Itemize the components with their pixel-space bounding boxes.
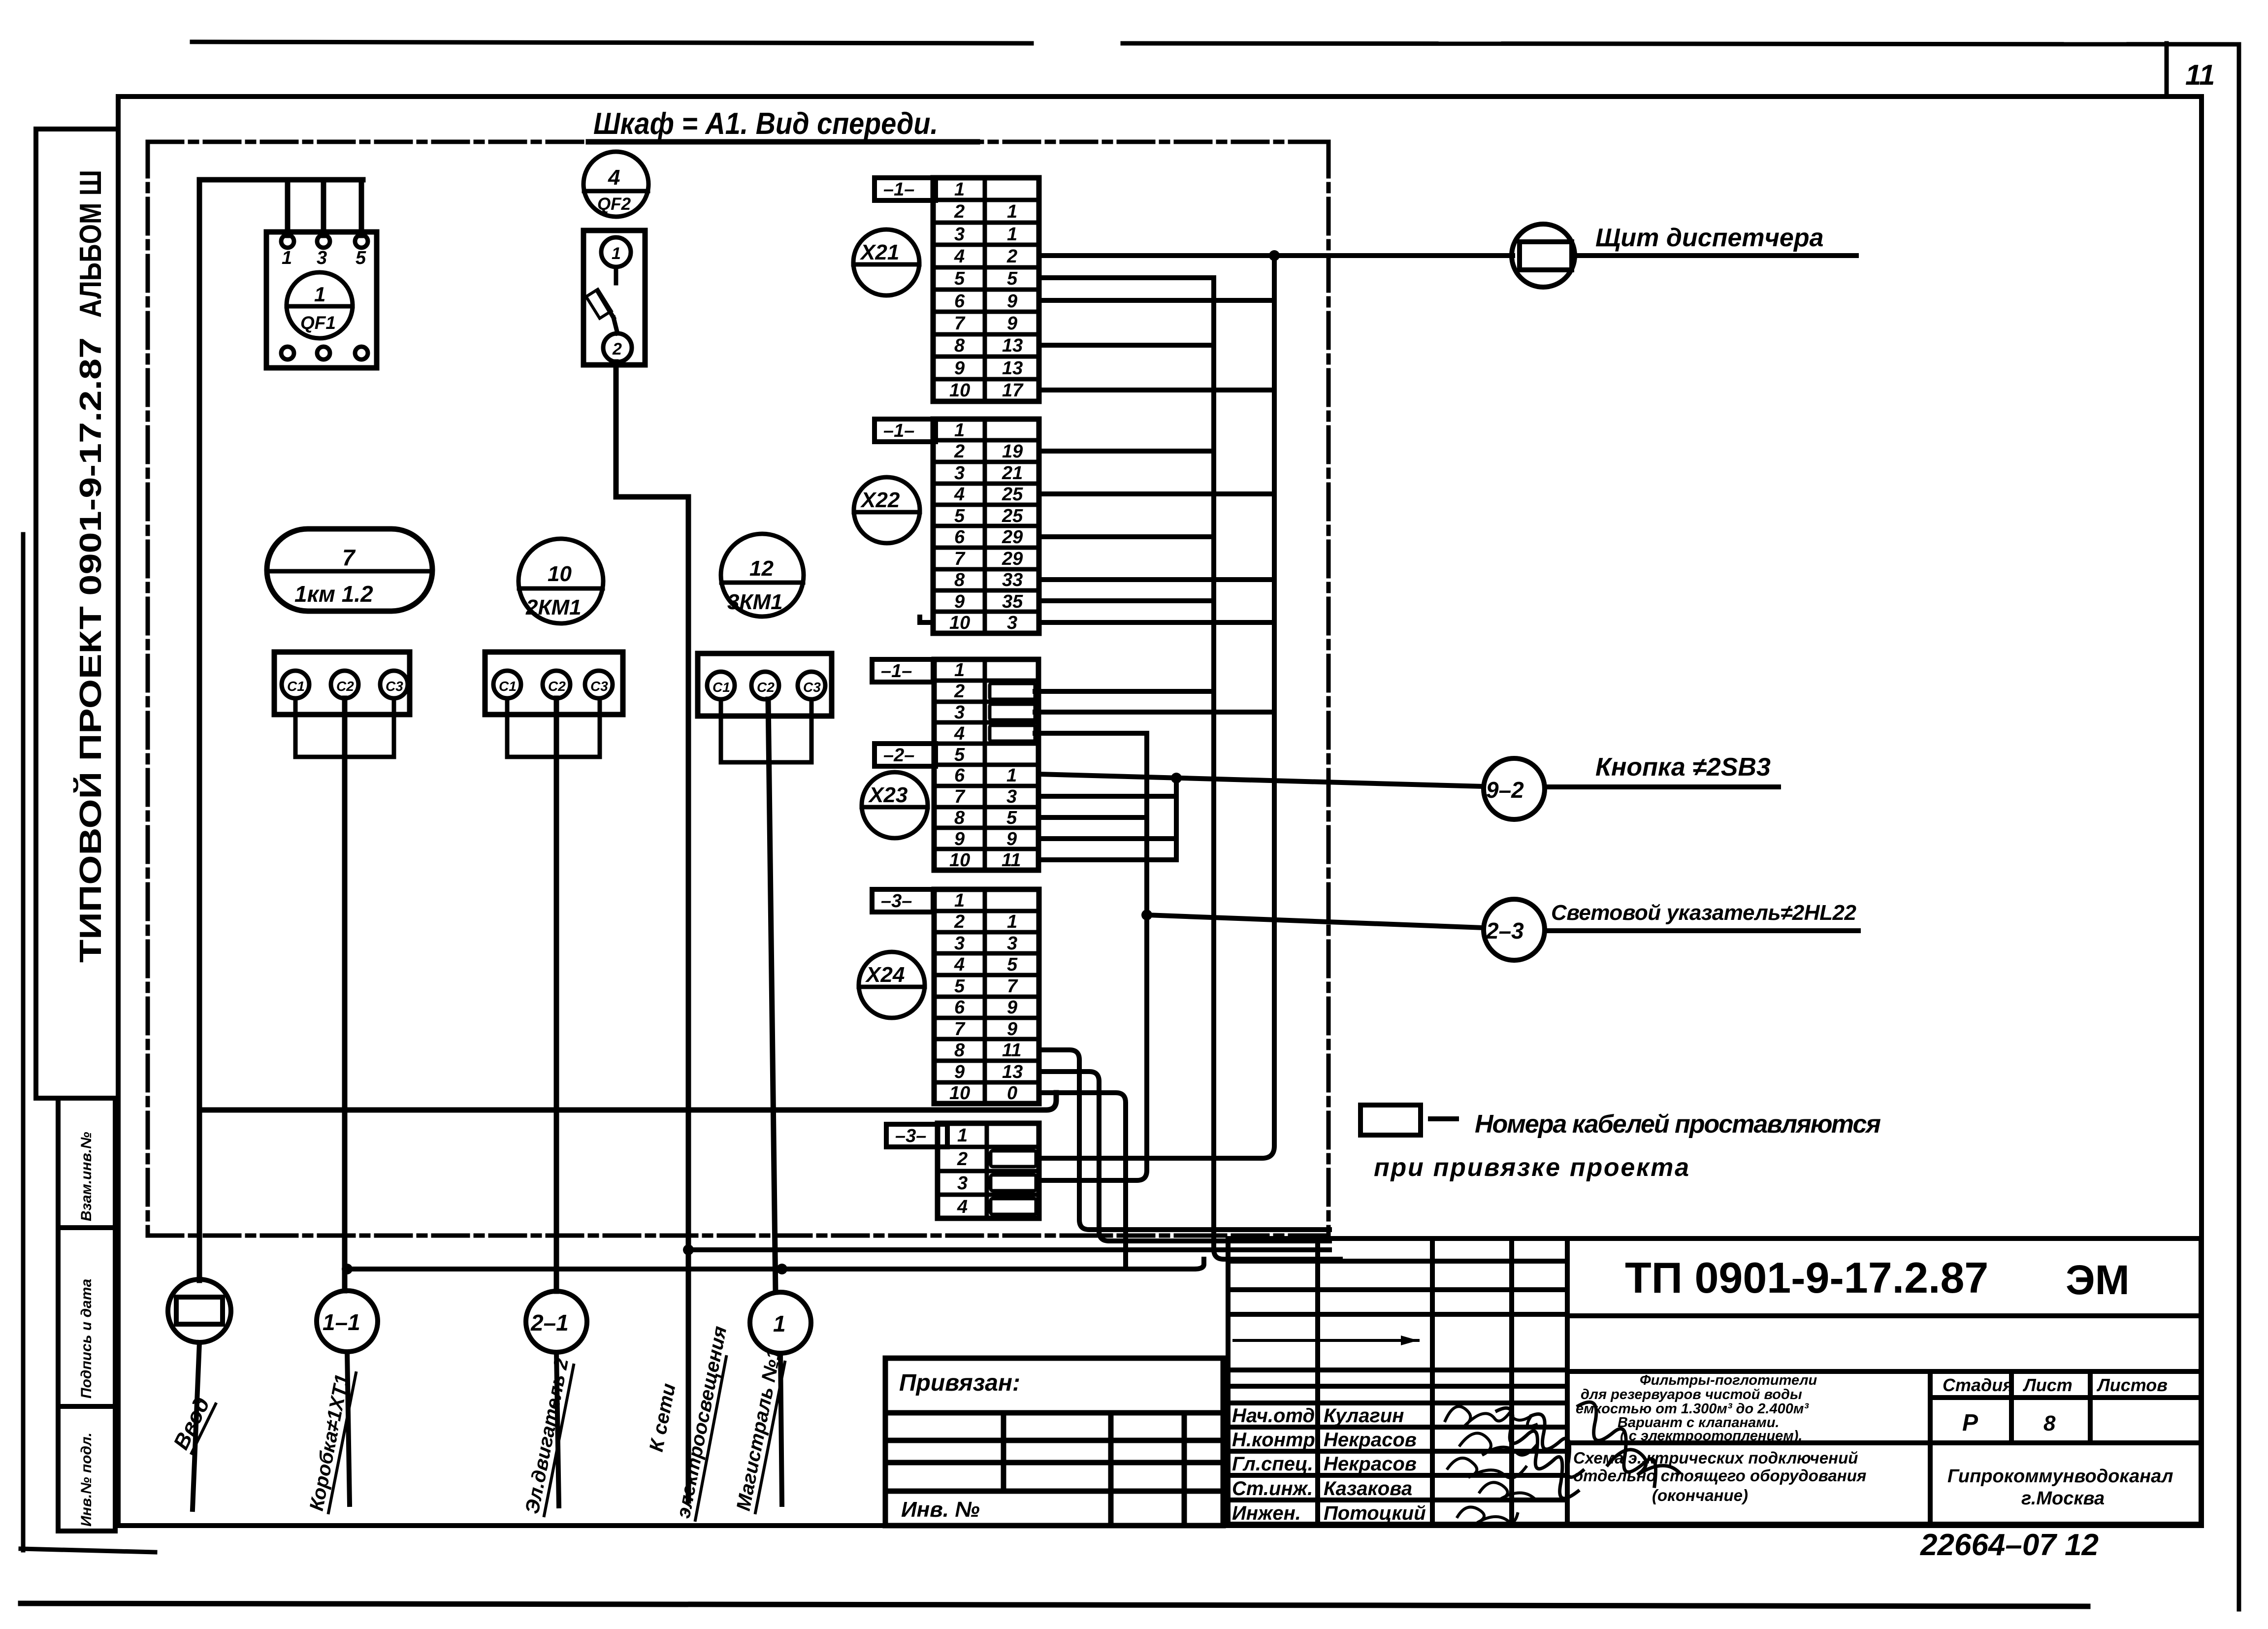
svg-text:9: 9 <box>954 1062 965 1082</box>
wire: QF2 to lighting feeder <box>616 362 688 1501</box>
wire: below 1-1 <box>347 1352 350 1504</box>
svg-text:9: 9 <box>1007 997 1017 1018</box>
svg-text:4: 4 <box>954 246 965 267</box>
svg-text:X23: X23 <box>868 783 907 807</box>
svg-text:г.Москва: г.Москва <box>2021 1488 2105 1509</box>
cable group label –1– <box>875 178 936 200</box>
svg-text:С3: С3 <box>803 680 821 695</box>
wire: X23.7 to button riser <box>1038 794 1176 799</box>
svg-text:9: 9 <box>1007 313 1017 334</box>
svg-text:7: 7 <box>954 786 966 807</box>
svg-text:5: 5 <box>954 506 965 526</box>
X23 cable number boxes <box>990 684 1035 741</box>
svg-text:2–1: 2–1 <box>530 1310 569 1336</box>
svg-text:ТП 0901-9-17.2.87: ТП 0901-9-17.2.87 <box>1625 1253 1988 1302</box>
svg-text:11: 11 <box>2185 59 2215 91</box>
wire: button line right <box>1545 784 1779 789</box>
wire: X21.6 to V2 <box>1039 298 1274 303</box>
wire: X22.8 to V2 <box>1039 577 1274 582</box>
node: junction magistral <box>777 1264 787 1274</box>
svg-text:Лист: Лист <box>2022 1375 2073 1395</box>
wire: feeder to Магистраль 1 <box>768 699 776 1292</box>
svg-text:4: 4 <box>957 1197 968 1217</box>
svg-text:С1: С1 <box>713 680 730 695</box>
wire: bottom distribution line <box>347 1259 1204 1269</box>
svg-text:Стадия: Стадия <box>1943 1375 2013 1395</box>
cabinet =A1 boundary (dash-dot) <box>148 142 1328 1236</box>
circuit breaker QF1 <box>266 232 377 368</box>
svg-text:9: 9 <box>954 358 965 379</box>
left sidebar stamp box <box>36 129 118 1531</box>
svg-text:33: 33 <box>1002 570 1023 590</box>
contactor position 7/1км1.2 (stadium) <box>267 529 432 611</box>
svg-text:Номера кабелей проставляют: Номера кабелей проставляются <box>1475 1110 1881 1139</box>
svg-text:5: 5 <box>1006 808 1017 828</box>
svg-text:3: 3 <box>954 933 965 954</box>
svg-text:10: 10 <box>949 380 970 401</box>
svg-text:Привязан:: Привязан: <box>899 1370 1020 1396</box>
svg-text:Световой указатель≠2HL22: Световой указатель≠2HL22 <box>1551 901 1857 925</box>
contactor position 10/2КМ1 <box>518 539 603 623</box>
wire: X23.4 box to indicator riser <box>1035 731 1147 736</box>
svg-text:25: 25 <box>1002 506 1023 526</box>
svg-text:25: 25 <box>1002 484 1023 505</box>
svg-text:X24: X24 <box>865 963 905 987</box>
wire: X21.10 to V2 <box>1039 388 1274 392</box>
svg-text:11: 11 <box>1002 1040 1021 1061</box>
svg-text:3КМ1: 3КМ1 <box>727 590 783 614</box>
svg-text:Фильтры-поглотители: Фильтры-поглотители <box>1640 1372 1817 1388</box>
svg-text:X22: X22 <box>860 488 900 512</box>
svg-text:ЭМ: ЭМ <box>2066 1257 2130 1303</box>
wire: button riser <box>1174 778 1179 860</box>
svg-text:5: 5 <box>1007 268 1018 289</box>
terminal block X21 table <box>933 178 1039 401</box>
svg-text:9: 9 <box>954 829 965 849</box>
svg-text:Гл.спец.: Гл.спец. <box>1232 1453 1313 1475</box>
svg-text:1км 1.2: 1км 1.2 <box>294 581 373 607</box>
symbol: circle 1 (magistral) <box>750 1292 811 1353</box>
symbol: Щит диспетчера circle <box>1512 224 1575 287</box>
svg-text:8: 8 <box>2043 1411 2056 1435</box>
svg-text:2: 2 <box>1006 246 1017 267</box>
svg-text:ТИПОВОЙ ПРОЕКТ 0901-9-17.2.87: ТИПОВОЙ ПРОЕКТ 0901-9-17.2.87 <box>73 337 108 963</box>
svg-text:2КМ1: 2КМ1 <box>525 595 582 619</box>
wire: X23.3 box to V2 <box>1035 710 1274 715</box>
svg-text:5: 5 <box>1007 954 1018 975</box>
svg-text:7: 7 <box>954 1019 966 1040</box>
svg-text:С3: С3 <box>590 679 608 694</box>
svg-text:1: 1 <box>1007 201 1017 222</box>
svg-text:С1: С1 <box>499 679 517 694</box>
label: Магистраль №1 <box>733 1347 785 1513</box>
svg-text:21: 21 <box>1002 463 1023 484</box>
svg-text:Н.контр.: Н.контр. <box>1232 1429 1321 1451</box>
svg-text:Потоцкий: Потоцкий <box>1324 1502 1426 1524</box>
svg-text:Листов: Листов <box>2096 1375 2168 1395</box>
wire: XS.2 to V2 handled above ; lighting junction line <box>688 1247 1329 1252</box>
svg-text:29: 29 <box>1002 549 1023 569</box>
wire: QF1 phase drops <box>285 180 291 235</box>
svg-text:1: 1 <box>954 179 965 200</box>
svg-text:7: 7 <box>954 313 966 334</box>
wire: vertical input riser (Ввод) <box>197 180 202 1280</box>
label: Коробка+1ХТ1 <box>306 1372 356 1513</box>
svg-text:( с электроотоплением),: ( с электроотоплением), <box>1620 1428 1802 1444</box>
svg-text:9: 9 <box>1007 291 1017 312</box>
wire: feeder to Эл.двигатель 2-1 <box>554 698 559 1291</box>
svg-text:2: 2 <box>954 912 965 932</box>
svg-text:1: 1 <box>954 660 965 681</box>
wire: tbox1 bridge <box>295 698 394 757</box>
svg-text:1: 1 <box>954 420 965 441</box>
svg-text:19: 19 <box>1002 441 1023 462</box>
wire: X23.10 to button riser corner <box>1038 857 1176 862</box>
wire: X24.10 exit <box>1039 1093 1126 1269</box>
wire: feeder to Коробка 1-1 <box>342 698 348 1291</box>
node: junction on dispatcher line <box>1269 250 1280 261</box>
svg-text:29: 29 <box>1002 527 1023 548</box>
svg-text:6: 6 <box>954 291 965 312</box>
symbol: circle 1-1 <box>317 1291 378 1352</box>
svg-text:2: 2 <box>957 1149 968 1170</box>
svg-text:Казакова: Казакова <box>1324 1478 1412 1499</box>
svg-text:Гипрокоммунводоканал: Гипрокоммунводоканал <box>1947 1466 2173 1487</box>
wire: X22.2 to V1 <box>1039 449 1214 454</box>
svg-text:2: 2 <box>612 340 622 358</box>
svg-text:3: 3 <box>954 702 965 723</box>
svg-text:–2–: –2– <box>883 745 914 766</box>
node: junction 1-1 <box>342 1264 353 1274</box>
svg-text:АЛЬБОМ Ш: АЛЬБОМ Ш <box>74 170 108 318</box>
svg-text:10: 10 <box>949 613 970 633</box>
svg-text:Взам.инв.№: Взам.инв.№ <box>78 1132 95 1221</box>
svg-text:1: 1 <box>282 248 292 268</box>
svg-text:1–1: 1–1 <box>323 1309 360 1335</box>
contactor position 12/3КМ1 <box>721 534 804 617</box>
terminal block XS table <box>938 1123 1039 1218</box>
svg-text:11: 11 <box>1002 850 1021 871</box>
node: junction on indicator line <box>1141 910 1152 920</box>
svg-text:1: 1 <box>1006 765 1017 786</box>
wire: dispatcher line right <box>1574 253 1856 258</box>
label: К сети электроосвещения <box>646 1324 731 1520</box>
cable group label –1– <box>875 419 936 442</box>
wire: main bus to X24.10 <box>199 1093 1056 1110</box>
title block <box>1228 1238 2201 1524</box>
legend cable-number box <box>1361 1105 1457 1135</box>
svg-text:2: 2 <box>954 201 965 222</box>
symbol: Ввод circle <box>168 1279 231 1342</box>
svg-text:5: 5 <box>954 745 965 765</box>
svg-text:9: 9 <box>1006 829 1017 849</box>
svg-text:13: 13 <box>1002 358 1023 379</box>
wire: collector V1 <box>1039 278 1340 1259</box>
svg-text:8: 8 <box>954 335 965 356</box>
svg-text:1: 1 <box>957 1125 968 1146</box>
svg-text:для резервуаров чистой воды: для резервуаров чистой воды <box>1581 1387 1802 1402</box>
svg-text:Кнопка ≠2SB3: Кнопка ≠2SB3 <box>1595 753 1771 782</box>
Привязан box <box>885 1358 1223 1526</box>
connector designator X24 <box>859 952 925 1018</box>
svg-text:5: 5 <box>954 976 965 997</box>
svg-text:9: 9 <box>1007 1019 1017 1040</box>
svg-text:8: 8 <box>954 808 965 828</box>
wire: indicator line right <box>1545 928 1858 933</box>
wire: X23.2 box to V1 <box>1035 689 1214 694</box>
cable group label –3– <box>872 889 933 912</box>
svg-text:4: 4 <box>954 954 965 975</box>
label: Эл.двигатель 2 <box>521 1356 574 1516</box>
svg-text:2: 2 <box>954 681 965 702</box>
svg-text:X21: X21 <box>859 240 899 264</box>
XS pin numbers <box>957 1125 968 1217</box>
wire: below Ввод <box>193 1342 199 1509</box>
svg-text:10: 10 <box>949 1083 970 1104</box>
svg-text:8: 8 <box>954 570 965 590</box>
svg-text:Нач.отд: Нач.отд <box>1232 1405 1315 1427</box>
svg-text:6: 6 <box>954 997 965 1018</box>
wire: tbox2 bridge <box>507 698 600 757</box>
svg-text:С2: С2 <box>336 679 354 694</box>
svg-text:10: 10 <box>949 850 970 871</box>
svg-text:8: 8 <box>954 1040 965 1061</box>
svg-text:С2: С2 <box>757 680 775 695</box>
wire: indicator line to circle 2-3 <box>1147 915 1484 928</box>
wire: X21.8 to V1 <box>1039 343 1214 348</box>
svg-text:9: 9 <box>954 591 965 612</box>
wire: X22.10 to V2 <box>1039 620 1274 625</box>
svg-text:при привязке проекта: при привязке проекта <box>1374 1153 1689 1182</box>
svg-text:Щит диспетчера: Щит диспетчера <box>1595 224 1824 252</box>
svg-text:QF2: QF2 <box>597 195 631 214</box>
svg-text:13: 13 <box>1002 1062 1023 1082</box>
terminal block X22 table <box>933 419 1039 633</box>
svg-text:3: 3 <box>1007 613 1017 633</box>
X22 pin numbers <box>949 420 1023 633</box>
symbol: circle 2-1 <box>526 1291 587 1352</box>
label: Ввод <box>169 1394 216 1454</box>
svg-text:Инжен.: Инжен. <box>1232 1502 1301 1524</box>
svg-text:Кулагин: Кулагин <box>1324 1405 1404 1427</box>
svg-text:отдельно стоящего оборудования: отдельно стоящего оборудования <box>1573 1466 1866 1485</box>
wire: input bus to QF1 <box>199 177 363 183</box>
svg-text:С3: С3 <box>386 679 403 694</box>
svg-text:–1–: –1– <box>883 179 914 200</box>
svg-text:1: 1 <box>1007 224 1017 245</box>
svg-text:Ст.инж.: Ст.инж. <box>1232 1478 1313 1499</box>
wire: X23.9 to button riser <box>1038 836 1176 841</box>
svg-text:0: 0 <box>1007 1083 1017 1104</box>
cable group label –3– <box>886 1124 947 1147</box>
svg-text:4: 4 <box>954 723 965 744</box>
wire: arrow in revision rows <box>1234 1336 1418 1345</box>
symbol: button circle 9-2 <box>1484 758 1545 819</box>
svg-text:17: 17 <box>1002 380 1024 401</box>
signatures <box>1445 1402 1679 1523</box>
terminal box 3 (C1 C2 C3) <box>698 653 832 716</box>
svg-text:5: 5 <box>356 248 366 268</box>
svg-text:–3–: –3– <box>895 1126 926 1146</box>
svg-text:3: 3 <box>1007 933 1017 954</box>
cable group label –2– <box>875 744 936 766</box>
svg-text:QF1: QF1 <box>300 313 336 333</box>
svg-text:5: 5 <box>954 268 965 289</box>
svg-text:9–2: 9–2 <box>1486 777 1524 803</box>
svg-text:Инв. №: Инв. № <box>901 1498 980 1522</box>
svg-text:10: 10 <box>548 562 572 586</box>
X22 row10 stub <box>920 617 933 622</box>
svg-text:7: 7 <box>954 549 966 569</box>
svg-text:Некрасов: Некрасов <box>1324 1453 1417 1475</box>
wire: X22.9 to V1 <box>1039 598 1214 603</box>
svg-text:С1: С1 <box>287 679 305 694</box>
connector designator X22 <box>854 477 920 543</box>
svg-text:3: 3 <box>954 224 965 245</box>
terminal block X24 table <box>934 889 1039 1104</box>
svg-text:4: 4 <box>608 165 620 190</box>
svg-text:3: 3 <box>957 1173 968 1194</box>
svg-text:6: 6 <box>954 527 965 548</box>
svg-text:Инв.№ подл.: Инв.№ подл. <box>78 1433 95 1527</box>
svg-text:Р: Р <box>1962 1410 1978 1436</box>
wire: tbox3 bridge <box>721 699 811 762</box>
terminal box 2 (C1 C2 C3) <box>485 652 623 715</box>
wire: X22.4 to V2 <box>1039 491 1274 496</box>
wire: collector V2 <box>1039 256 1274 1158</box>
svg-text:13: 13 <box>1002 335 1023 356</box>
node: junction on button line <box>1171 773 1182 783</box>
svg-text:1: 1 <box>773 1311 786 1336</box>
svg-text:1: 1 <box>314 283 325 306</box>
svg-text:1: 1 <box>1007 912 1017 932</box>
svg-text:–1–: –1– <box>883 421 914 441</box>
svg-text:7: 7 <box>342 545 356 570</box>
svg-text:7: 7 <box>1007 976 1018 997</box>
switch QF2 <box>583 230 645 365</box>
svg-text:22664–07 12: 22664–07 12 <box>1920 1528 2099 1562</box>
wire: X24.8 exit <box>1039 1050 1329 1230</box>
wire: below 1 <box>780 1353 782 1504</box>
svg-text:Подпись и дата: Подпись и дата <box>78 1279 95 1399</box>
wire: indicator riser <box>1039 733 1147 1180</box>
svg-text:12: 12 <box>749 556 774 581</box>
symbol: indicator circle 2-3 <box>1484 899 1545 960</box>
connector designator X21 <box>853 229 919 295</box>
terminal block X23 table <box>934 659 1038 870</box>
svg-text:6: 6 <box>954 765 965 786</box>
terminal box 1 (C1 C2 C3) <box>274 652 410 715</box>
cable group label –1– <box>872 659 933 682</box>
svg-text:–3–: –3– <box>881 891 912 912</box>
wire: X24.9 exit <box>1039 1072 1329 1241</box>
XS cable number boxes <box>991 1151 1036 1214</box>
connector designator X23 <box>862 772 928 838</box>
svg-text:35: 35 <box>1002 591 1023 612</box>
X23 pin numbers <box>949 660 1021 871</box>
svg-text:С2: С2 <box>548 679 566 694</box>
svg-text:1: 1 <box>612 244 621 263</box>
wire: X23.8 to indicator riser <box>1038 815 1147 820</box>
svg-text:(окончание): (окончание) <box>1652 1486 1748 1504</box>
svg-text:3: 3 <box>954 463 965 484</box>
svg-text:–1–: –1– <box>881 661 912 682</box>
svg-text:2: 2 <box>954 441 965 462</box>
wire: below 2-1 <box>556 1352 559 1506</box>
wire: X23.6 to button 2SB3 <box>1038 774 1484 786</box>
svg-text:4: 4 <box>954 484 965 505</box>
node: junction lighting line <box>683 1244 694 1255</box>
wire: X22.6 to V1 <box>1039 534 1214 539</box>
svg-text:Шкаф = А1. Вид спереди.: Шкаф = А1. Вид спереди. <box>593 107 938 141</box>
X21 pin numbers <box>949 179 1024 401</box>
wire: X21.4 to dispatcher panel <box>1039 253 1513 258</box>
svg-text:3: 3 <box>1006 786 1017 807</box>
svg-text:Некрасов: Некрасов <box>1324 1429 1417 1451</box>
svg-text:3: 3 <box>317 248 327 268</box>
position circle 4/QF2 <box>583 152 648 217</box>
svg-text:2–3: 2–3 <box>1486 918 1524 944</box>
X24 pin numbers <box>949 890 1023 1104</box>
svg-text:1: 1 <box>954 890 965 911</box>
